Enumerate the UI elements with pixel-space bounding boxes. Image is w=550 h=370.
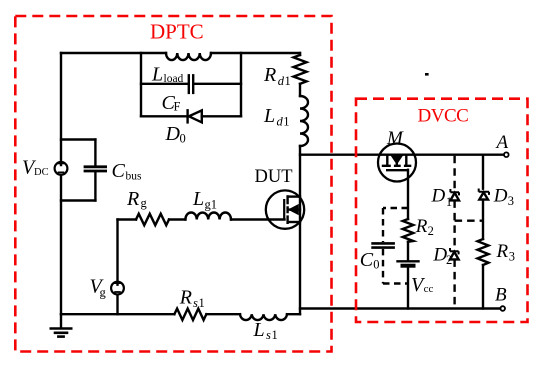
svg-text:D: D xyxy=(493,186,508,207)
svg-text:M: M xyxy=(386,128,404,149)
svg-text:2: 2 xyxy=(446,253,452,267)
svg-text:g: g xyxy=(100,286,107,300)
svg-text:bus: bus xyxy=(126,171,143,183)
svg-text:L: L xyxy=(151,63,163,85)
svg-text:L: L xyxy=(253,319,265,341)
svg-text:0: 0 xyxy=(373,258,379,272)
svg-text:L: L xyxy=(263,105,275,127)
svg-text:C: C xyxy=(112,160,126,182)
svg-text:F: F xyxy=(174,100,181,114)
svg-text:1: 1 xyxy=(285,74,291,88)
svg-text:g: g xyxy=(141,196,148,210)
svg-text:1: 1 xyxy=(199,296,205,310)
svg-text:3: 3 xyxy=(509,249,515,263)
svg-text:3: 3 xyxy=(508,194,514,208)
svg-text:s: s xyxy=(193,296,198,310)
svg-text:R: R xyxy=(415,216,428,237)
svg-text:1: 1 xyxy=(446,195,452,209)
svg-text:2: 2 xyxy=(428,224,434,238)
svg-text:L: L xyxy=(192,188,204,210)
svg-text:cc: cc xyxy=(424,283,434,295)
svg-text:load: load xyxy=(164,73,184,85)
svg-text:R: R xyxy=(126,188,139,210)
svg-text:DUT: DUT xyxy=(255,167,293,187)
svg-text:B: B xyxy=(495,285,507,306)
svg-text:D: D xyxy=(431,186,446,207)
svg-text:DC: DC xyxy=(34,167,49,178)
svg-text:R: R xyxy=(263,64,276,86)
svg-text:R: R xyxy=(179,287,192,309)
svg-text:s: s xyxy=(266,328,271,342)
svg-text:R: R xyxy=(496,241,509,262)
svg-text:DVCC: DVCC xyxy=(418,106,469,127)
svg-text:1: 1 xyxy=(272,328,278,342)
svg-text:g1: g1 xyxy=(205,198,218,212)
svg-text:1: 1 xyxy=(283,115,289,129)
svg-text:0: 0 xyxy=(180,132,186,146)
svg-text:D: D xyxy=(165,123,181,145)
svg-text:A: A xyxy=(495,132,509,153)
svg-text:DPTC: DPTC xyxy=(150,20,204,44)
svg-text:C: C xyxy=(360,249,374,271)
